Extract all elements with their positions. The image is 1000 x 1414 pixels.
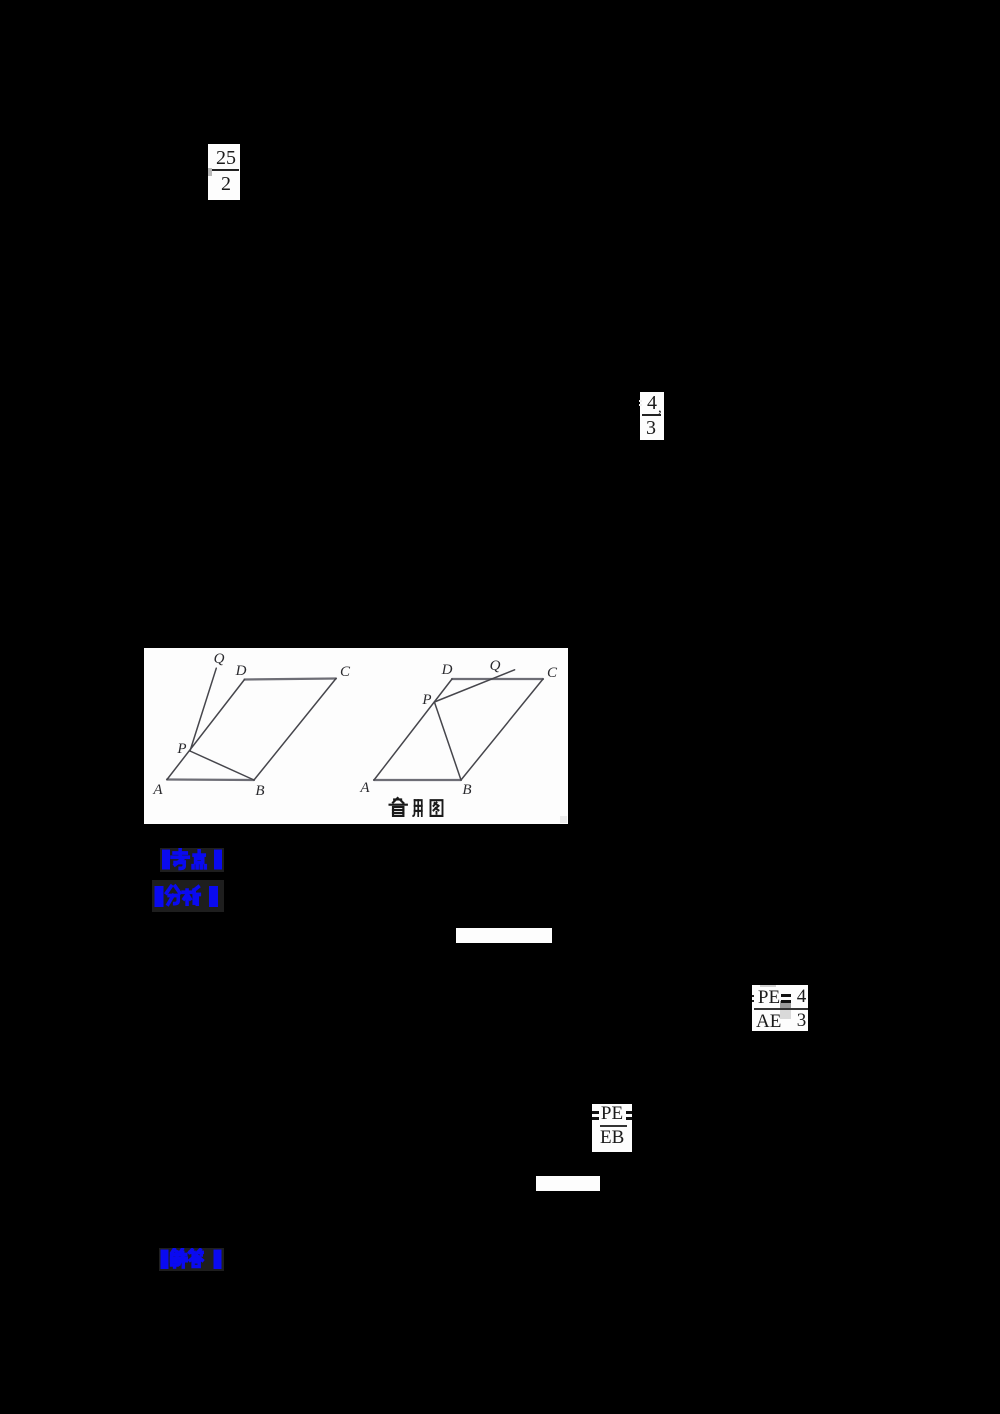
svg-text:A: A: [359, 780, 370, 796]
svg-text:D: D: [441, 662, 453, 678]
svg-text:P: P: [176, 741, 186, 757]
svg-text:D: D: [235, 663, 247, 679]
svg-text:P: P: [421, 692, 431, 708]
svg-text:C: C: [340, 664, 351, 680]
svg-text:B: B: [255, 783, 264, 799]
svg-text:Q: Q: [490, 658, 501, 674]
svg-text:Q: Q: [214, 651, 225, 667]
svg-text:A: A: [152, 782, 163, 798]
svg-text:B: B: [462, 782, 471, 798]
svg-text:C: C: [547, 665, 558, 681]
